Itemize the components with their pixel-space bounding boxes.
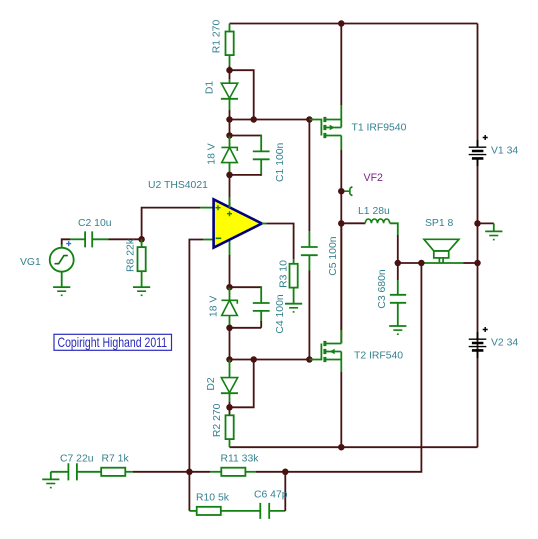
svg-text:C5 100n: C5 100n (328, 236, 339, 276)
node speaker rail at L1/C3 (395, 260, 402, 267)
wire feedback rail to speaker node (285, 263, 421, 472)
node gate rail at main line (226, 116, 233, 123)
node feedback right (282, 469, 289, 476)
capacitor C3 (377, 263, 406, 326)
svg-text:VG1: VG1 (20, 257, 41, 268)
node feedback left (186, 469, 193, 476)
wire speaker rail (398, 262, 422, 264)
wire T1 source up (340, 24, 342, 106)
svg-text:SP1 8: SP1 8 (425, 218, 454, 229)
wire D1 cathode down (229, 110, 231, 136)
wire T1 drain down to output node (340, 150, 342, 344)
transistor T1 IRF9540 (309, 105, 341, 150)
node gate rail lower at T2 gate (306, 356, 313, 363)
resistor R7 (101, 453, 129, 476)
speaker SP1 (424, 239, 459, 263)
node supply mid / ground tap (474, 220, 481, 227)
resistor R11 (189, 453, 285, 476)
node zener upper bottom (226, 172, 233, 179)
svg-text:D1: D1 (205, 81, 216, 95)
wire bypass around D2 (230, 360, 254, 408)
battery V2 (469, 327, 488, 358)
capacitor C7 (60, 453, 101, 480)
wire to gate rail lower (229, 328, 231, 360)
node output at L1 (338, 220, 345, 227)
node zener lower bottom (226, 325, 233, 332)
node gate rail lower at bypass (250, 356, 257, 363)
node gate rail lower at main line (226, 356, 233, 363)
svg-text:T2 IRF540: T2 IRF540 (354, 351, 403, 362)
diode D1 (205, 79, 239, 110)
ground below R8 (141, 271, 143, 287)
capacitor C2 (70, 218, 142, 247)
svg-text:U2 THS4021: U2 THS4021 (148, 180, 208, 191)
transistor T2 IRF540 (309, 330, 341, 372)
ground supply mid (478, 222, 494, 224)
wire op-amp output (262, 223, 267, 225)
voltage pin VF2 (345, 187, 353, 196)
node top rail to T1 drain (338, 20, 345, 27)
ground below C3 (389, 326, 406, 334)
resistor R1 (212, 20, 234, 66)
ground below R3 (293, 288, 295, 304)
svg-text:C7 22u: C7 22u (60, 453, 94, 464)
svg-text:C2 10u: C2 10u (78, 218, 112, 229)
node op-amp V- to zener lower (226, 284, 233, 291)
signal generator VG1 (20, 239, 74, 271)
svg-text:D2: D2 (206, 377, 217, 391)
node R1 bottom / D1 anode (229, 66, 231, 79)
svg-text:T1 IRF9540: T1 IRF9540 (352, 123, 407, 134)
zener diode D4 18V lower (208, 287, 237, 328)
wire gate coupling line lower (308, 271, 310, 360)
svg-text:R8 22k: R8 22k (125, 238, 136, 272)
node T2 source at V- rail (338, 444, 345, 451)
wire T2 source down (340, 372, 342, 447)
node gate rail at bypass (250, 116, 257, 123)
svg-text:C6 47p: C6 47p (254, 490, 288, 501)
resistor R2 (212, 403, 234, 447)
wire gate coupling line upper (308, 120, 310, 232)
svg-text:R11 33k: R11 33k (221, 453, 260, 464)
resistor R3 (279, 259, 298, 288)
svg-text:18 V: 18 V (208, 296, 219, 317)
svg-text:V2 34: V2 34 (491, 338, 518, 349)
svg-text:L1 28u: L1 28u (358, 206, 390, 217)
ground below VG1 (61, 272, 63, 287)
wire L1 to speaker rail (397, 235, 399, 263)
node speaker rail at supply mid (474, 260, 481, 267)
node zener upper top (226, 132, 233, 139)
svg-text:18 V: 18 V (207, 143, 218, 164)
wire top rail V+ (230, 23, 478, 25)
capacitor C4 (230, 286, 287, 333)
inductor L1 (341, 206, 398, 235)
svg-text:C3 680n: C3 680n (377, 269, 388, 309)
wire inverting input feedback (189, 240, 203, 472)
svg-text:C1 100n: C1 100n (275, 142, 286, 182)
capacitor C6 (254, 472, 288, 519)
svg-text:VF2: VF2 (364, 172, 384, 184)
svg-text:R10 5k: R10 5k (196, 493, 230, 504)
svg-text:R2 270: R2 270 (212, 403, 223, 437)
node D2 cathode / R2 top (229, 402, 231, 415)
capacitor C1 (230, 135, 286, 182)
ground bottom left (51, 472, 69, 480)
wire bypass around D1 (230, 70, 254, 119)
resistor R10 (189, 472, 260, 515)
node input at R8 (138, 236, 145, 243)
node speaker rail at feedback (418, 260, 425, 267)
battery V1 (469, 135, 488, 166)
svg-text:R7 1k: R7 1k (102, 453, 130, 464)
svg-text:R1 270: R1 270 (212, 20, 223, 54)
node gate rail at T1 gate (306, 116, 313, 123)
wire right supply rail (477, 24, 479, 448)
wire to op-amp V+ pin (229, 175, 231, 207)
svg-text:C4 100n: C4 100n (275, 294, 286, 334)
wire gate rail upper (230, 119, 310, 121)
wire bottom V- rail (230, 446, 478, 448)
resistor R8 (125, 238, 145, 272)
diode D2 (206, 360, 238, 403)
wire T2 drain up (340, 223, 342, 330)
capacitor C5 (301, 236, 339, 276)
wire noninverting input (142, 208, 200, 240)
wire gate rail lower (230, 359, 310, 361)
node VF2 probe tap (338, 188, 345, 195)
copyright label box (54, 334, 172, 350)
wire op-amp V- pin down (229, 239, 231, 255)
op-amp U2 THS4021 (214, 197, 262, 248)
svg-text:R3 10: R3 10 (279, 260, 290, 288)
wire R7 to feedback node (125, 471, 133, 473)
svg-text:V1 34: V1 34 (491, 146, 518, 157)
svg-text:Copiright Highand 2011: Copiright Highand 2011 (58, 335, 168, 350)
zener diode D3 18V upper (207, 136, 238, 175)
